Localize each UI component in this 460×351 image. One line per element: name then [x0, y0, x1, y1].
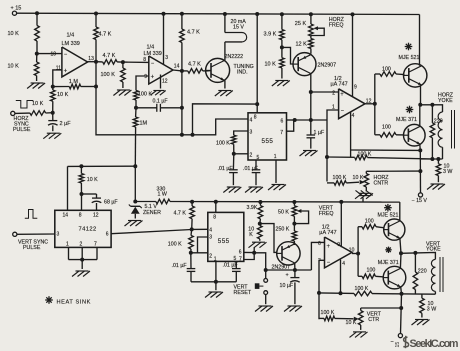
- op-amp U4 1/2 uA747 (horizontal): [339, 89, 365, 119]
- svg-text:10 K: 10 K: [57, 92, 69, 98]
- svg-text:YOKE: YOKE: [438, 98, 453, 104]
- wire vert sync input: [17, 233, 55, 235]
- svg-text:7: 7: [239, 257, 242, 263]
- node Q2 collector / U4 +in: [309, 90, 313, 94]
- heat sink mark Q4: [406, 109, 414, 111]
- wire to vert yoke: [401, 253, 435, 260]
- svg-text:+: +: [340, 92, 344, 98]
- svg-text:.01 µF: .01 µF: [172, 263, 188, 269]
- resistor R20 220 (horz damp): [431, 105, 433, 123]
- wire Q4 collector: [419, 105, 421, 126]
- ground Q1 emitter: [218, 90, 231, 92]
- node R7/R8 junction: [121, 60, 125, 64]
- svg-text:8: 8: [213, 214, 216, 220]
- transistor Q2 2N2907 (horizontal): [293, 53, 316, 76]
- ground below R15: [275, 80, 288, 82]
- svg-text:PULSE: PULSE: [23, 245, 41, 251]
- svg-text:−: −: [391, 339, 394, 345]
- svg-text:−: −: [64, 52, 67, 58]
- svg-text:3 W: 3 W: [443, 169, 452, 175]
- node 74122 pin8/C6 junction: [80, 192, 84, 196]
- wire 74122 pin6 output: [111, 230, 192, 234]
- ground below R33 shared with pin6 node: [252, 241, 265, 243]
- wire U6 pin2: [191, 252, 208, 254]
- wire Q6 emitter: [400, 238, 401, 253]
- wire junction to 74122 pin 8: [81, 194, 83, 210]
- resistor R34 100 (Q6 base): [358, 226, 362, 228]
- resistor R28 4.7K (vert): [191, 202, 193, 206]
- svg-text:LM 339: LM 339: [62, 41, 80, 47]
- wire U7 pin4 column: [340, 260, 342, 294]
- svg-text:10 K: 10 K: [346, 320, 357, 326]
- svg-text:−: −: [327, 260, 330, 266]
- svg-text:1 µF: 1 µF: [314, 130, 325, 136]
- resistor R33 10K (vert): [259, 224, 261, 226]
- svg-text:+: +: [64, 68, 68, 74]
- op-amp U1 1/4 LM339: [62, 47, 88, 77]
- svg-text:100: 100: [367, 267, 376, 273]
- svg-text:12 K: 12 K: [296, 41, 308, 47]
- svg-text:68 µF: 68 µF: [104, 200, 118, 206]
- svg-text:K: K: [249, 232, 253, 238]
- node R14/R15 junction: [280, 45, 284, 49]
- node U2 output: [180, 69, 184, 73]
- node U7 output: [352, 253, 358, 255]
- svg-text:2N2907: 2N2907: [318, 62, 337, 68]
- resistor R29 100K (U6 timing): [190, 229, 193, 235]
- ground U6 bus: [209, 291, 222, 293]
- node zener tap: [133, 200, 137, 204]
- op-amp U2 1/4 LM339: [149, 56, 173, 84]
- ground below S1: [259, 305, 272, 307]
- ground below D1: [128, 220, 141, 222]
- svg-text:15 V: 15 V: [233, 24, 244, 30]
- potentiometer R23 HORZ CNTR: [365, 171, 367, 173]
- resistor R7 4.7K (U1 out to U2): [96, 61, 103, 63]
- ground below R8: [117, 89, 130, 91]
- wire to U4 +input: [311, 91, 339, 93]
- svg-text:100 K: 100 K: [216, 140, 230, 146]
- wire Q1 emitter to ground: [224, 80, 226, 88]
- wire U3 pin2: [234, 153, 248, 155]
- svg-text:10 K: 10 K: [8, 64, 20, 70]
- node -input feedback tap: [325, 155, 329, 159]
- IC U3 555 timer (horizontal): [248, 113, 287, 160]
- wire U6 output to vert ramp node: [254, 253, 266, 270]
- svg-text:2N2222: 2N2222: [225, 54, 244, 60]
- svg-text:10 K: 10 K: [8, 31, 20, 37]
- wire U3 pin1 to ground: [275, 160, 277, 183]
- wire Q3 collector to rail: [419, 15, 421, 66]
- svg-text:2 µF: 2 µF: [60, 121, 72, 127]
- resistor R3 1M feedback: [53, 86, 70, 88]
- wire Q5 base feed: [260, 224, 277, 253]
- ground below C4: [249, 186, 262, 188]
- ground below R41: [415, 319, 428, 321]
- node ramp column tap: [309, 118, 313, 122]
- svg-text:7: 7: [94, 241, 97, 247]
- svg-text:6: 6: [239, 249, 242, 255]
- svg-text:1M: 1M: [140, 120, 148, 126]
- svg-text:1 W: 1 W: [158, 192, 167, 198]
- svg-text:4: 4: [342, 261, 345, 267]
- node U6 pin6/7 tie: [252, 251, 256, 255]
- transistor Q1 2N2222: [206, 58, 230, 82]
- svg-text:10 µF: 10 µF: [280, 283, 294, 289]
- resistor R21 10 3W: [437, 159, 439, 164]
- core lines horz yoke: [451, 110, 453, 149]
- svg-text:.01 µF: .01 µF: [223, 263, 239, 269]
- node horz sync junction: [51, 111, 55, 115]
- resistor R35 100 (Q7 base): [358, 275, 362, 277]
- svg-text:7: 7: [280, 130, 283, 136]
- wire Q7 collector: [399, 253, 402, 268]
- wire Q7 emitter column to -15: [401, 294, 402, 334]
- transistor Q5 2N2907 (vertical): [277, 242, 300, 265]
- resistor R41 10 3W (vert): [421, 294, 423, 298]
- svg-text:3: 3: [165, 55, 168, 61]
- node -15 terminal (vert): [398, 334, 402, 338]
- wire 1M column to zener rail: [134, 166, 136, 201]
- wire Q4 emitter: [419, 144, 422, 150]
- potentiometer R30 50K VERT FREQ: [293, 202, 295, 206]
- resistor R19 100 (Q4 base): [375, 134, 380, 136]
- node horz output junction: [418, 103, 422, 107]
- svg-text:74122: 74122: [79, 226, 97, 232]
- wire Q3 emitter: [420, 85, 422, 105]
- wire U4 pin4 column: [350, 112, 352, 157]
- node vert reset tap: [264, 268, 268, 272]
- node Q5 base feed tap: [258, 222, 262, 226]
- heat sink mark Q6: [384, 207, 392, 209]
- ground below C5: [303, 150, 316, 152]
- svg-text:8: 8: [254, 114, 257, 120]
- wire pin6 node up to shared ground: [253, 247, 255, 253]
- svg-text:−: −: [341, 109, 344, 115]
- svg-text:12: 12: [93, 213, 99, 219]
- node U6 pin2 junction: [189, 251, 193, 255]
- svg-text:250 K: 250 K: [276, 227, 290, 233]
- transistor Q4 MJE371 (horizontal lower): [404, 124, 426, 146]
- IC U6 555 timer (vertical): [208, 212, 244, 261]
- wire rail row to 74122: [68, 165, 136, 167]
- wire U3 pin3 loop: [234, 131, 248, 135]
- svg-text:+: +: [151, 75, 155, 81]
- capacitor C9 10uF (vert ramp): [294, 270, 296, 277]
- wire U7 V+ pin to zener rail: [340, 202, 342, 247]
- svg-text:4.7 K: 4.7 K: [187, 30, 200, 36]
- svg-text:14: 14: [174, 64, 180, 70]
- resistor R36 220 (vert damp): [414, 253, 416, 272]
- svg-text:100 K: 100 K: [101, 72, 116, 78]
- svg-text:14: 14: [63, 213, 69, 219]
- svg-text:3: 3: [57, 232, 60, 238]
- svg-text:FREQ: FREQ: [319, 211, 334, 217]
- svg-text:10: 10: [349, 248, 355, 254]
- wire R7 node to U2 -input: [123, 61, 149, 63]
- wire U6 pin7 loop: [244, 253, 254, 260]
- inductor L2 vertical yoke winding: [431, 259, 435, 267]
- svg-text:1 M: 1 M: [69, 79, 79, 85]
- resistor R11 4.7K (U2 output pullup): [181, 14, 183, 29]
- svg-text:10 K: 10 K: [265, 61, 277, 67]
- svg-text:3.9K: 3.9K: [247, 205, 258, 211]
- wire Q7 emitter: [400, 287, 403, 294]
- svg-text:4.7 K: 4.7 K: [188, 61, 201, 67]
- svg-text:.01 µF: .01 µF: [243, 166, 259, 172]
- node Q5 collector tap: [293, 268, 297, 272]
- ground below R21: [431, 183, 444, 185]
- resistor R22 100K (horz feedback): [327, 156, 355, 158]
- svg-text:100 K: 100 K: [355, 286, 369, 292]
- wire horz bottom row: [420, 158, 442, 160]
- wire Q5 collector: [294, 263, 296, 270]
- resistor R8 100K to ground: [122, 62, 124, 68]
- svg-text:2: 2: [332, 90, 335, 96]
- wire 5.1V zener rail: [135, 201, 156, 203]
- node -15V terminal (horz): [418, 193, 422, 197]
- resistor R37 100K (vert feedback): [354, 291, 372, 296]
- wire U2 +input to R9: [136, 76, 149, 90]
- resistor R6 4.7K (U1 output pullup): [95, 14, 97, 28]
- svg-text:HEAT SINK: HEAT SINK: [57, 299, 91, 305]
- svg-text:100 K: 100 K: [138, 91, 153, 97]
- svg-text:10 K: 10 K: [353, 175, 364, 181]
- op-amp U7 1/2 uA747 (vertical): [325, 237, 352, 268]
- svg-text:4: 4: [250, 118, 253, 124]
- lamp DS1 tuning indicator 20mA 15V: [224, 14, 226, 33]
- heat sink mark Q3: [405, 46, 413, 48]
- zener diode D1 5.1V: [131, 205, 140, 207]
- svg-text:3: 3: [209, 235, 212, 241]
- wire U7 output column: [357, 227, 359, 277]
- resistor R13 100K (U3 timing): [231, 135, 236, 144]
- svg-text:3 W: 3 W: [427, 306, 436, 312]
- node R9/C2/R10 junction: [134, 106, 138, 110]
- node 10K tap: [79, 164, 83, 168]
- svg-text:CTR: CTR: [368, 317, 379, 323]
- svg-text:13: 13: [88, 56, 94, 62]
- svg-text:SeekIC.com: SeekIC.com: [410, 338, 459, 350]
- node C2 right tap on U2 output column: [180, 106, 184, 110]
- heat sink legend: [45, 299, 53, 301]
- svg-text:9: 9: [337, 242, 340, 248]
- node 68uF row tap: [133, 164, 137, 168]
- wire U6 pin8 to zener rail: [215, 202, 217, 213]
- svg-text:4.7 K: 4.7 K: [174, 211, 187, 217]
- svg-text:10 K: 10 K: [87, 177, 98, 183]
- resistor R2 10K (divider lower): [34, 62, 39, 76]
- resistor R31 250K: [293, 224, 295, 231]
- wire horz centering row: [366, 170, 420, 172]
- capacitor C7 .01uF (U6 timing): [190, 253, 192, 268]
- svg-text:ZENER: ZENER: [143, 210, 161, 216]
- waveform glyph negative pulse: [16, 101, 34, 109]
- node HORZ SYNC PULSE input terminal: [11, 111, 15, 115]
- svg-text:555: 555: [262, 138, 274, 145]
- resistor R5 10K (horz sync series): [30, 111, 46, 116]
- ground 74122: [76, 270, 89, 272]
- resistor R25 100K (horz cntr): [327, 182, 334, 184]
- svg-text:1/4: 1/4: [147, 45, 155, 51]
- svg-text:100: 100: [382, 67, 391, 73]
- wire U4 output column: [374, 74, 376, 135]
- svg-text:CNTR: CNTR: [374, 180, 389, 186]
- SeekIC watermark: [403, 336, 458, 350]
- svg-text:100: 100: [382, 125, 391, 131]
- svg-text:4: 4: [209, 228, 212, 234]
- wire U4 V+ pin to rail: [352, 14, 354, 96]
- node U1 output: [94, 60, 98, 64]
- svg-text:LM 339: LM 339: [144, 51, 162, 57]
- ground U3 pin1: [272, 184, 285, 186]
- wire U6 pin6: [244, 251, 254, 253]
- wire Q2 collector column: [310, 74, 312, 121]
- wire U6 pin3 loop: [198, 237, 208, 253]
- wire +15 rail: [17, 13, 420, 14]
- heat sink mark Q7: [385, 249, 391, 251]
- svg-text:8: 8: [143, 57, 146, 63]
- svg-text:YOKE: YOKE: [426, 247, 441, 253]
- svg-text:4: 4: [352, 113, 355, 119]
- wire vert ramp row: [266, 269, 312, 271]
- capacitor C5 1uF (ramp): [310, 120, 312, 135]
- ground below C3: [227, 186, 240, 188]
- ground on zener rail: [362, 198, 364, 202]
- switch S1 VERT RESET: [265, 270, 267, 278]
- svg-text:3.9 K: 3.9 K: [264, 32, 277, 38]
- core lines vert yoke: [439, 257, 441, 292]
- svg-text:100 K: 100 K: [333, 175, 347, 181]
- svg-text:µA 747: µA 747: [319, 230, 336, 236]
- node U2 column on reset row: [180, 133, 184, 137]
- node U3 pin8 tap: [255, 102, 259, 106]
- svg-text:1: 1: [274, 154, 277, 160]
- resistor R14 3.9K: [281, 14, 283, 29]
- svg-text:− 15 V: − 15 V: [412, 198, 428, 204]
- capacitor C8 .01uF (U6 pin5): [235, 261, 237, 268]
- svg-text:25 K: 25 K: [295, 21, 307, 27]
- svg-text:2: 2: [80, 241, 83, 247]
- svg-text:µA 747: µA 747: [331, 81, 348, 87]
- svg-text:MJE 371: MJE 371: [396, 117, 417, 123]
- svg-text:4.7 K: 4.7 K: [99, 31, 112, 37]
- svg-text:+: +: [327, 244, 331, 250]
- wire vert centering row: [361, 307, 402, 309]
- wire U7 +input to ramp node: [311, 242, 324, 270]
- svg-text:FREQ: FREQ: [329, 22, 344, 28]
- transistor Q3 MJE521 (horizontal upper): [404, 64, 427, 87]
- svg-text:0.1 µF: 0.1 µF: [153, 99, 169, 105]
- resistor R17 12K: [309, 39, 314, 49]
- resistor R12 4.7K (to Q1 base): [182, 70, 188, 72]
- wire U2 V+ pin 3 to rail: [163, 14, 165, 65]
- node vert feedback tap: [317, 291, 321, 295]
- svg-text:100: 100: [365, 219, 374, 225]
- svg-text:12: 12: [162, 79, 168, 85]
- node vert output junction: [399, 251, 403, 255]
- svg-text:+ 15: + 15: [11, 6, 22, 12]
- svg-text:PULSE: PULSE: [13, 127, 31, 133]
- ground below HORZ CNTR pot: [359, 192, 372, 194]
- svg-text:100 K: 100 K: [168, 241, 182, 247]
- wire U4 -input: [327, 110, 339, 182]
- wire U7 -input: [319, 260, 325, 319]
- ground below C1: [47, 132, 60, 134]
- svg-text:1: 1: [66, 241, 69, 247]
- potentiometer R38 VERT CTR: [360, 308, 362, 311]
- wire U1 +input to feedback node: [53, 70, 62, 87]
- resistor R15 10K: [281, 47, 283, 57]
- svg-text:2: 2: [209, 253, 212, 259]
- capacitor C4 .01uF (U3 pin5): [255, 160, 257, 170]
- wire U6 pin1 ground bus: [215, 261, 217, 281]
- node U3 pin6/7 tie: [293, 118, 297, 122]
- node U4 output: [365, 103, 375, 105]
- svg-text:1/4: 1/4: [67, 33, 75, 39]
- node U1 output column: [94, 85, 98, 89]
- ground U2 pin12: [153, 90, 164, 92]
- wire U3 pin7 loop: [287, 120, 294, 131]
- wire Q2 base feed: [282, 47, 293, 64]
- ground below C9: [288, 305, 301, 307]
- resistor R10 1M to zener rail: [135, 108, 137, 117]
- resistor R9 100K (U2 +in): [134, 90, 139, 100]
- capacitor C3 .01uF (U3 timing): [232, 154, 234, 170]
- resistor R1 10K (divider upper): [36, 13, 38, 25]
- svg-text:10 K: 10 K: [32, 101, 44, 107]
- resistor R4 10K (sync input pull): [52, 87, 54, 90]
- svg-text:5: 5: [257, 155, 260, 161]
- resistor R26 330 1W: [156, 199, 170, 204]
- node U3 pin2 junction: [232, 152, 236, 156]
- wire Q6 collector to zener rail: [399, 202, 401, 221]
- svg-text:+: +: [286, 272, 289, 278]
- node vert centering tap: [399, 306, 403, 310]
- svg-text:6: 6: [281, 118, 284, 124]
- wire U2 gnd pin 12: [160, 75, 162, 89]
- svg-text:10: 10: [51, 52, 57, 58]
- svg-text:100 K: 100 K: [321, 310, 335, 316]
- svg-text:220: 220: [418, 269, 427, 275]
- svg-text:2N2907: 2N2907: [272, 265, 291, 271]
- node U6 pin4 junction: [190, 227, 194, 231]
- svg-text:555: 555: [218, 238, 230, 245]
- svg-text:9: 9: [354, 84, 357, 90]
- resistor R40 100K (vert cntr): [319, 317, 324, 319]
- transistor Q7 MJE371 (vertical lower): [383, 266, 406, 289]
- wire U6 pin4: [192, 228, 208, 230]
- ground below R2: [31, 82, 44, 84]
- svg-text:4.7 K: 4.7 K: [103, 53, 116, 59]
- wire U2 output column down: [181, 71, 183, 135]
- wire comparator output row to 555 U3 pin 4: [95, 62, 97, 87]
- wire Q4 emitter to -15V terminal: [419, 150, 421, 192]
- svg-text:MJE 521: MJE 521: [399, 55, 420, 61]
- inductor L1 horizontal yoke winding: [438, 112, 442, 121]
- wire Q5 emitter to 250K: [293, 243, 295, 246]
- svg-text:MJE 521: MJE 521: [378, 212, 399, 218]
- capacitor C1 2uF: [52, 113, 54, 121]
- svg-text:9: 9: [144, 74, 147, 80]
- capacitor C2 0.1uF (series): [136, 107, 157, 109]
- IC U5 74122 one-shot: [55, 210, 111, 247]
- svg-text:IND.: IND.: [237, 69, 248, 75]
- wire U3 pin6: [287, 119, 295, 121]
- resistor R18 100 (Q3 base): [375, 73, 380, 75]
- svg-text:5: 5: [234, 256, 237, 262]
- svg-text:3: 3: [250, 130, 253, 136]
